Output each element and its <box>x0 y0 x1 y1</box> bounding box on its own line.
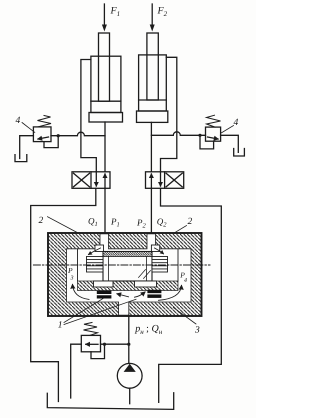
svg-text:4: 4 <box>234 118 239 128</box>
node dot at pump line junction <box>127 343 130 346</box>
leaders from label 1 <box>64 298 103 322</box>
wire bottom pipe cyl1 (P1) <box>104 122 106 172</box>
force arrow F1 <box>102 4 107 32</box>
leader for label 4 right <box>222 126 234 133</box>
reservoir tank (bottom) <box>47 393 173 410</box>
centerline axis <box>33 264 210 266</box>
svg-text:Q2: Q2 <box>157 217 168 229</box>
directional valve left X position <box>74 173 90 187</box>
svg-text:P: P <box>67 266 73 275</box>
svg-text:P1: P1 <box>110 217 120 229</box>
svg-text:pн ; Qн: pн ; Qн <box>134 324 163 337</box>
svg-text:P2: P2 <box>136 218 147 230</box>
spool stub left (striped) <box>87 257 104 273</box>
relief valve (bottom) internal arrow <box>86 343 98 345</box>
node dot at relief output <box>103 343 106 346</box>
wire supply pipe from block to pump <box>128 315 130 363</box>
cylinder 2 barrel <box>139 55 167 111</box>
wire bottom relief output to pump line <box>101 343 129 345</box>
wire right relief to tank <box>221 135 239 152</box>
leader 3 <box>173 308 196 325</box>
relief valve 4 (left) internal arrow <box>38 137 49 139</box>
wire right relief input line with hop over rod pipe <box>151 132 205 135</box>
flow divider block housing (hatched) <box>48 233 202 316</box>
directional valve left body <box>72 172 110 189</box>
cylinder 1 barrel <box>91 56 121 112</box>
wire P1 pipe below valve to divider <box>104 188 106 246</box>
wire left relief pilot loop <box>44 136 58 148</box>
svg-text:Q1: Q1 <box>88 216 98 228</box>
wire bottom relief pilot loop <box>91 344 105 358</box>
wire bottom pipe cyl2 (P2) <box>150 122 152 171</box>
svg-text:3: 3 <box>70 276 74 282</box>
relief valve 4 (left) spring <box>38 116 52 127</box>
svg-text:2: 2 <box>188 217 193 227</box>
orifice element right (black) <box>147 290 161 298</box>
force arrow F2 <box>150 4 155 32</box>
cylinder 2 piston line <box>139 99 167 101</box>
directional valve right arrows <box>150 174 152 188</box>
relief valve (bottom) spring <box>84 323 98 336</box>
svg-text:1: 1 <box>58 321 63 331</box>
cylinder 2 bottom flange <box>137 111 168 122</box>
spool sleeve right <box>151 245 159 252</box>
relief valve (bottom) body <box>81 335 100 351</box>
flow arrow into port P1 <box>89 248 101 255</box>
wire left relief to tank <box>20 136 34 159</box>
wire rod-side pipe cyl1 <box>81 60 96 172</box>
wire P2 pipe below valve to divider <box>150 188 152 246</box>
svg-text:4: 4 <box>16 116 21 126</box>
svg-text:3: 3 <box>194 326 200 336</box>
flow arrow slot left <box>117 294 129 297</box>
cylinder 2 (right) rod <box>147 33 158 100</box>
leader 2 left <box>48 217 77 233</box>
directional valve right X position <box>166 173 182 187</box>
svg-text:F2: F2 <box>157 6 168 19</box>
node junction dot right <box>198 134 201 137</box>
pump circle <box>117 363 142 388</box>
svg-text:2: 2 <box>39 216 44 226</box>
node junction dot left <box>57 134 60 137</box>
hatch island under spool <box>78 281 179 291</box>
wire right return line to tank <box>159 188 222 402</box>
directional valve right body <box>146 172 184 189</box>
relief valve 4 (right) internal arrow <box>208 137 219 139</box>
bore end wall right <box>177 249 179 281</box>
wire rod-side pipe cyl2 <box>161 57 177 172</box>
directional valve right divider <box>164 172 166 189</box>
svg-text:F1: F1 <box>110 6 121 19</box>
tank symbol (top right) <box>234 149 245 157</box>
svg-text:4: 4 <box>184 278 187 284</box>
tank symbol (top left) <box>15 155 27 162</box>
wire left return line to tank <box>31 188 96 401</box>
wire right relief pilot loop <box>200 135 214 149</box>
cylinder 1 piston line <box>91 100 121 102</box>
flow arrow into port P2 <box>155 248 164 254</box>
flow arrow channel P3 (left, curved up) <box>73 285 90 300</box>
bore end wall left <box>77 249 79 281</box>
block internal cavity (white) <box>67 234 192 315</box>
bottom collar right <box>135 281 157 287</box>
orifice element left (black) <box>97 291 112 299</box>
relief valve 4 (left) body <box>33 127 51 142</box>
spool stub right (striped) <box>152 257 168 273</box>
leader for label 4 left <box>22 123 35 133</box>
directional valve left arrows <box>95 172 97 186</box>
leader 2 right <box>175 226 187 233</box>
spool body section lines <box>108 257 110 282</box>
cylinder 1 bottom flange <box>89 113 123 123</box>
spool top land strip <box>103 252 152 257</box>
bottom collar left <box>94 281 114 287</box>
wire pump suction <box>129 388 131 404</box>
pump triangle <box>124 364 136 372</box>
directional valve left divider <box>90 172 92 189</box>
spool main body <box>103 252 152 282</box>
cylinder 1 (left) rod <box>99 33 110 101</box>
flow arrow channel P4 (right, curved up) <box>159 286 182 301</box>
relief valve 4 (right) spring <box>207 115 221 127</box>
wire left relief output line with hop over rod pipe <box>51 132 105 135</box>
flow arrow slot right <box>135 292 146 297</box>
spool sleeve left <box>95 245 104 252</box>
wire bottom relief drain to tank <box>71 344 82 398</box>
relief valve 4 (right) body <box>206 127 221 141</box>
